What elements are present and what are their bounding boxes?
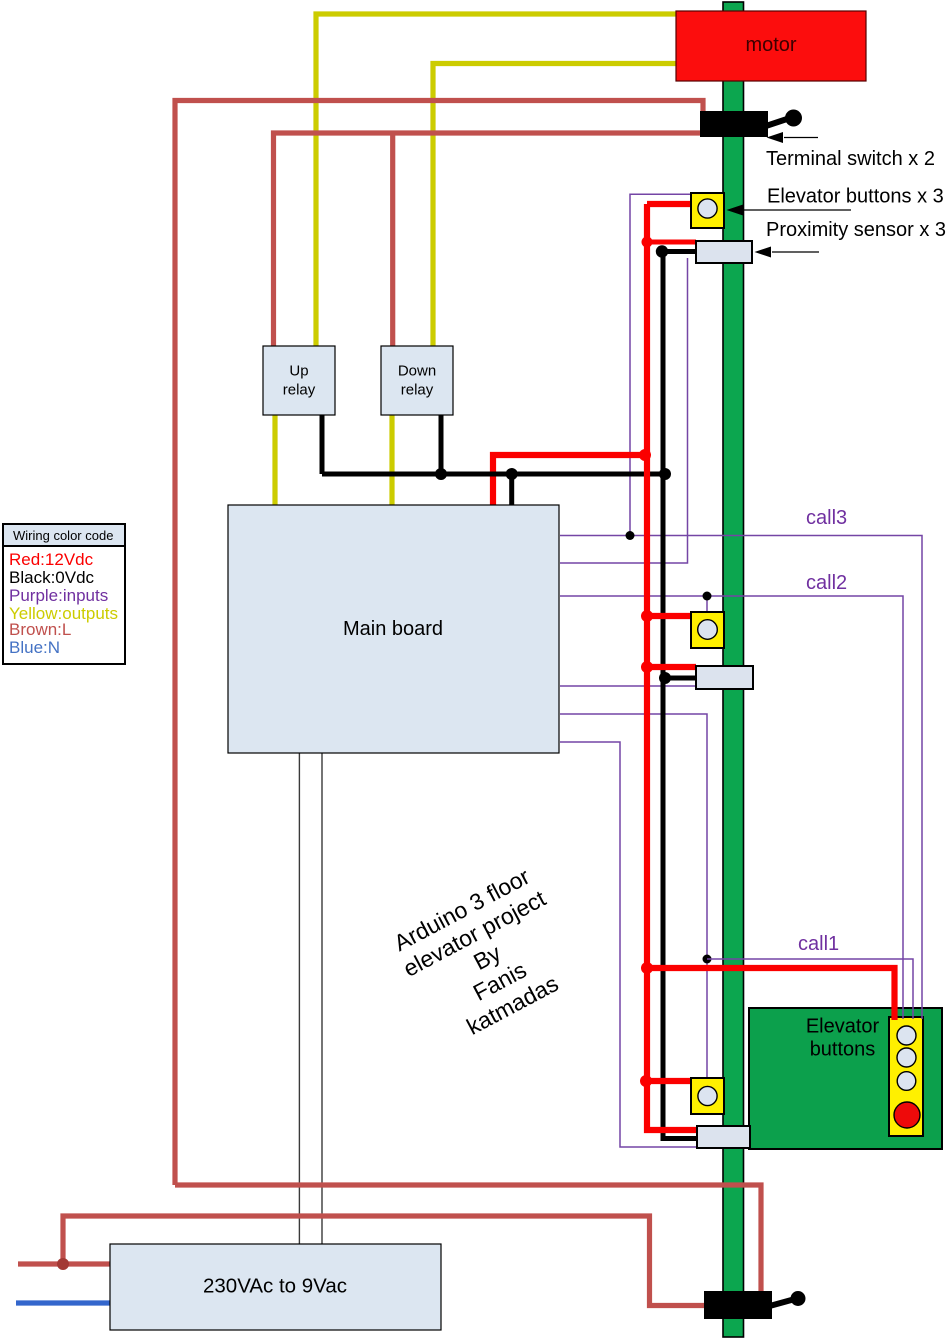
svg-text:Down: Down [398, 363, 436, 380]
junction black at sensor2 link [659, 672, 671, 684]
svg-text:Elevator buttons x 3: Elevator buttons x 3 [767, 186, 944, 208]
wire purple: sensor2 input to main board [560, 685, 697, 687]
svg-text:Purple:inputs: Purple:inputs [9, 586, 108, 605]
junction black at board stub [506, 468, 518, 480]
wire brown L: transformer loop to lower switch [63, 1216, 704, 1306]
elevator cab buttons panel [749, 1008, 942, 1149]
svg-text:Up: Up [289, 363, 308, 380]
svg-text:Brown:L: Brown:L [9, 620, 71, 639]
wire red 12V: vertical bus along shaft [647, 204, 698, 1130]
wire brown L: relay supply rail [274, 133, 701, 346]
wire red 12V: feed cab button strip [647, 968, 895, 1020]
wire brown L: left bus from top switch down to transformer feed [175, 101, 703, 1186]
wire brown L: stub into transformer [18, 1261, 110, 1266]
wire brown L: bottom run to lower terminal switch [175, 1185, 761, 1291]
svg-text:230VAc to 9Vac: 230VAc to 9Vac [203, 1275, 347, 1298]
terminal switch bottom: body [704, 1291, 772, 1319]
legend header [3, 524, 125, 546]
svg-text:call1: call1 [798, 933, 839, 955]
wire red 12V: main board to bus [493, 455, 645, 505]
motor [676, 11, 866, 81]
svg-text:Blue:N: Blue:N [9, 638, 60, 657]
junction brown at transformer input [57, 1258, 69, 1270]
floor2 elevator button [691, 612, 724, 648]
junction black at down relay [435, 468, 447, 480]
label arrow: elevator buttons [727, 205, 852, 216]
wire purple: sensor3 input to main board [560, 258, 688, 563]
floor3 elevator button [691, 193, 724, 228]
junction node call3 [626, 531, 635, 540]
main board [228, 505, 559, 753]
cab button strip [889, 1017, 923, 1136]
svg-text:Elevator: Elevator [806, 1016, 880, 1038]
wire red 12V: feed sensor3 [647, 240, 696, 245]
wire purple: sensor1 input to main board [560, 742, 710, 1147]
junction red at sensor2 [641, 661, 653, 673]
wire purple: floor3 button to call3 node [630, 194, 691, 535]
junction red at board feed [639, 449, 651, 461]
junction red at floor1 button [640, 1075, 652, 1087]
junction black bus corner [659, 468, 671, 480]
wire yellow: main board to down relay [389, 415, 394, 505]
svg-text:Proximity sensor x 3: Proximity sensor x 3 [766, 219, 946, 241]
wire black 0V: up relay to bus [320, 415, 325, 474]
svg-text:Terminal switch x 2: Terminal switch x 2 [766, 148, 935, 170]
wire purple: call1 line to cab buttons [707, 959, 913, 1019]
wire blue N: stub into transformer [16, 1300, 110, 1305]
svg-text:buttons: buttons [810, 1039, 876, 1061]
junction red at floor2 button [641, 610, 653, 622]
wire purple: call3 line from main board to cab buttons [560, 536, 922, 1020]
wire black 0V: link to sensor3 top [662, 249, 696, 254]
label arrow: terminal switch [767, 132, 819, 143]
wire pair: main board to transformer secondary [298, 753, 300, 1244]
junction node call1 [703, 955, 712, 964]
label arrow: proximity sensor [755, 247, 820, 258]
title note rotated [386, 861, 588, 1053]
wire black 0V: link to sensor2 [665, 676, 696, 681]
svg-text:Black:0Vdc: Black:0Vdc [9, 568, 95, 587]
terminal switch bottom: knob [791, 1291, 806, 1306]
svg-text:relay: relay [401, 382, 434, 399]
svg-text:call2: call2 [806, 572, 847, 594]
wire purple: call2 line from main board to cab buttons [560, 596, 903, 1019]
legend: wiring color code box [3, 524, 125, 664]
down relay U2 [381, 346, 453, 415]
wire black 0V: stub bus to main board [509, 474, 514, 505]
junction red at sensor3 feed [642, 237, 653, 248]
wire purple: stub call2 node to floor2 button [706, 596, 708, 612]
wire yellow: down relay output to motor [433, 64, 676, 347]
wire purple: main board to floor1 button [560, 714, 707, 1078]
wire red 12V: feed sensor2 [647, 664, 696, 670]
svg-text:Main board: Main board [343, 618, 443, 640]
terminal switch top: lever [760, 118, 790, 128]
svg-text:Red:12Vdc: Red:12Vdc [9, 550, 94, 569]
floor1 elevator button [691, 1078, 724, 1114]
wire red 12V: feed floor1 button [646, 1078, 691, 1084]
sensor3 proximity [696, 241, 752, 263]
wire red 12V: feed floor3 button [647, 201, 691, 207]
transformer 230VAc to 9Vac [110, 1244, 441, 1330]
svg-text:Wiring color code: Wiring color code [13, 528, 113, 543]
terminal switch bottom: lever [766, 1299, 795, 1307]
svg-text:motor: motor [745, 34, 796, 56]
wire black 0V: vertical bus along shaft [663, 252, 698, 1139]
up relay U1 [263, 346, 335, 415]
wire brown L: branch to down relay [390, 133, 395, 346]
terminal switch top: knob [785, 110, 802, 127]
wire black 0V: horizontal bus [322, 472, 665, 477]
sensor1 proximity [697, 1126, 750, 1148]
terminal switch top: body [700, 111, 768, 137]
junction black at sensor3 link [656, 245, 668, 257]
junction red at cab strip feed [641, 962, 653, 974]
sensor2 proximity [696, 666, 753, 689]
svg-text:call3: call3 [806, 507, 847, 529]
wire black 0V: bus overdraw at red crossing [484, 472, 503, 477]
junction node call2 [703, 592, 712, 601]
wire red 12V: feed floor2 button [647, 613, 691, 619]
elevator shaft rail [723, 2, 744, 1337]
wire yellow: up relay output to motor [316, 14, 676, 346]
wire black 0V: down relay to bus [439, 415, 444, 474]
svg-text:relay: relay [283, 382, 316, 399]
wire yellow: main board to up relay [272, 415, 277, 505]
